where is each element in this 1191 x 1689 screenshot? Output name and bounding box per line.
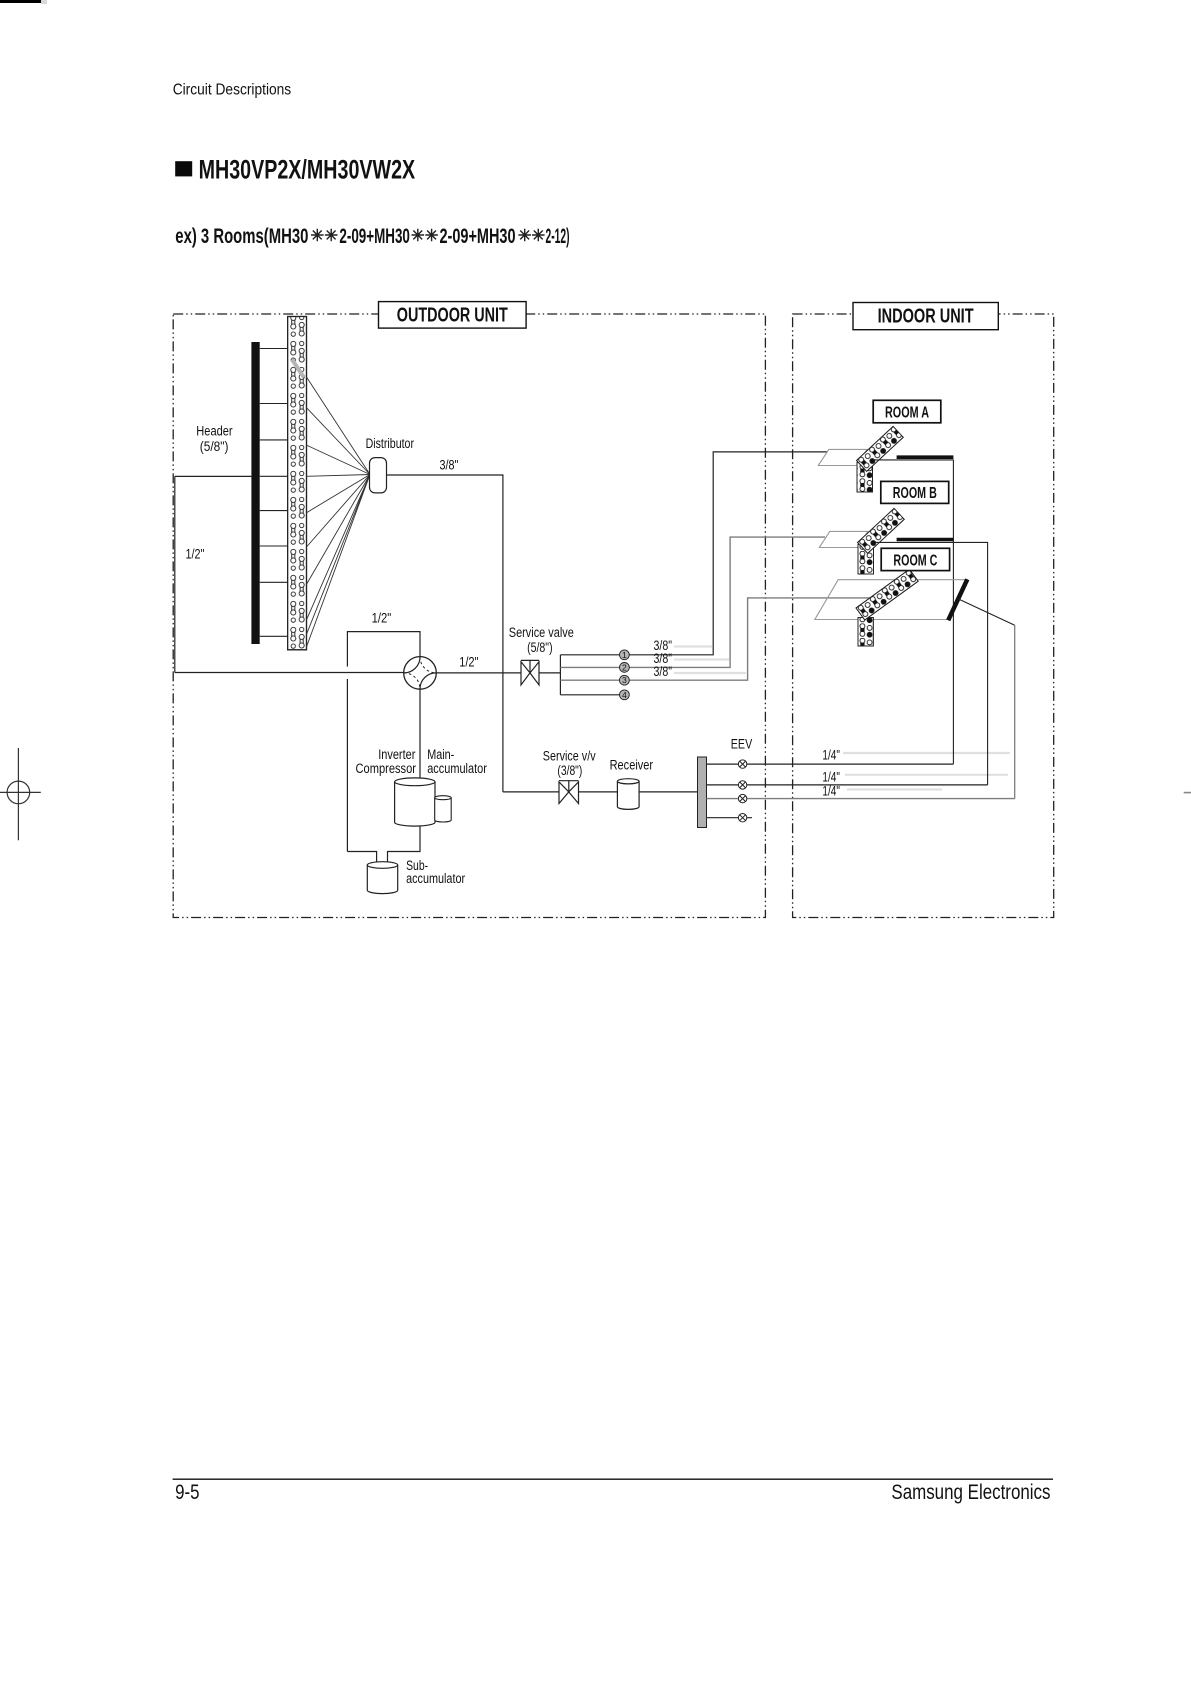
svg-text:accumulator: accumulator	[427, 761, 487, 776]
EEV port pipe 2	[707, 784, 988, 786]
pipe valve to service valve	[436, 672, 560, 674]
ROOM A label box	[873, 400, 941, 423]
svg-text:Service valve: Service valve	[509, 625, 574, 640]
branch pipe 4	[560, 694, 624, 696]
3/8 inch liquid pipe from distributor	[387, 475, 503, 792]
svg-text:EEV: EEV	[731, 736, 752, 751]
branch pipe 3	[560, 598, 881, 680]
branch number circle 4	[620, 690, 630, 700]
svg-text:1/2": 1/2"	[459, 655, 478, 670]
svg-text:Service v/v: Service v/v	[543, 749, 596, 764]
pipes into sub-accumulator	[347, 826, 420, 863]
svg-text:3: 3	[622, 675, 627, 685]
ROOM B label box	[881, 481, 949, 503]
page corner printing bar	[0, 0, 41, 3]
receiver vessel	[617, 781, 639, 809]
svg-text:2-12): 2-12)	[546, 225, 570, 248]
svg-text:ROOM A: ROOM A	[885, 404, 929, 421]
EEV valve symbol 2	[738, 781, 746, 789]
svg-text:ROOM C: ROOM C	[893, 552, 937, 569]
svg-text:Distributor: Distributor	[366, 436, 415, 451]
ROOM A evaporator vertical section	[857, 463, 873, 493]
registration mark left	[0, 748, 41, 840]
service v/v symbol	[559, 781, 579, 804]
svg-text:Samsung Electronics: Samsung Electronics	[891, 1481, 1050, 1504]
ROOM B housing thick base line	[897, 538, 954, 542]
branch junction manifold	[559, 655, 561, 695]
ROOM C evaporator vertical section	[858, 618, 873, 647]
section square bullet	[175, 161, 192, 176]
EEV valve symbol 3	[738, 794, 746, 802]
ROOM C indoor unit panel	[815, 580, 967, 620]
EEV valve symbol 1	[738, 760, 746, 768]
svg-text:ex) 3 Rooms(MH30: ex) 3 Rooms(MH30	[175, 225, 308, 248]
star glyphs pair 3	[518, 229, 544, 242]
svg-text:accumulator: accumulator	[406, 871, 465, 886]
EEV port pipe 4 stub	[707, 817, 753, 819]
ROOM C return pipe vertical	[1014, 625, 1016, 798]
EEV port pipe 3	[707, 798, 1015, 800]
svg-text:INDOOR UNIT: INDOOR UNIT	[878, 305, 974, 328]
svg-text:Main-: Main-	[427, 747, 454, 762]
EEV valve symbol 4	[738, 814, 746, 822]
svg-text:1/2": 1/2"	[372, 610, 392, 625]
svg-text:1/4": 1/4"	[822, 748, 840, 763]
svg-text:3/8": 3/8"	[654, 664, 673, 679]
branch number circle 2	[620, 662, 630, 672]
sub-accumulator vessel	[367, 865, 397, 894]
compressor small vessel	[435, 798, 452, 822]
outdoor heat exchanger coil	[288, 317, 307, 650]
left 1/2 inch riser pipe	[174, 476, 176, 672]
branch pipe 2	[560, 537, 825, 667]
header pipe	[175, 475, 252, 477]
ROOM B indoor unit panel	[819, 531, 868, 547]
main accumulator vessel	[395, 782, 435, 826]
svg-text:9-5: 9-5	[175, 1481, 199, 1504]
svg-text:1/2": 1/2"	[186, 547, 205, 562]
ROOM A return pipe	[874, 460, 953, 764]
ROOM C return pipe diagonal	[959, 599, 1015, 625]
svg-text:2: 2	[622, 662, 627, 672]
svg-text:Receiver: Receiver	[610, 758, 654, 773]
svg-text:Compressor: Compressor	[356, 761, 417, 776]
header manifold black bar	[251, 342, 259, 644]
EEV port pipe 1	[707, 763, 954, 765]
svg-text:Inverter: Inverter	[378, 747, 416, 762]
registration mark right edge	[1184, 792, 1191, 794]
OUTDOOR UNIT title box	[379, 302, 527, 329]
ROOM A housing thick base line	[897, 455, 954, 459]
compressor discharge pipe	[419, 689, 421, 778]
footer rule	[173, 1478, 1053, 1480]
star glyphs pair 2	[412, 229, 438, 242]
branch number circle 1	[620, 650, 630, 660]
svg-text:1: 1	[622, 650, 627, 660]
svg-text:3/8": 3/8"	[440, 458, 459, 473]
ROOM C housing thick slanted line	[948, 579, 967, 620]
svg-text:(5/8"): (5/8")	[200, 439, 229, 454]
ROOM B return pipe	[875, 542, 987, 785]
outdoor unit dash-dot border	[173, 314, 765, 918]
INDOOR UNIT title box	[853, 303, 998, 330]
header-to-coil stub pipes	[260, 349, 288, 637]
indoor unit dash-dot border	[793, 314, 1054, 918]
svg-text:ROOM B: ROOM B	[893, 485, 937, 502]
gray streak artifact on coil	[292, 360, 304, 378]
svg-text:2-09+MH30: 2-09+MH30	[440, 225, 516, 248]
svg-text:2-09+MH30: 2-09+MH30	[339, 225, 410, 248]
svg-text:OUTDOOR UNIT: OUTDOOR UNIT	[397, 303, 508, 326]
svg-text:4: 4	[622, 690, 627, 700]
ROOM A evaporator slanted section	[857, 426, 904, 471]
ROOM A indoor unit panel	[818, 449, 867, 465]
svg-text:1/4": 1/4"	[822, 770, 840, 785]
svg-text:Header: Header	[196, 423, 233, 438]
faint scan ghost lines	[674, 647, 1010, 790]
liquid pipe to receiver	[503, 791, 698, 793]
distributor fan capillary tubes	[307, 377, 371, 647]
hot gas loop pipe above 4-way valve	[347, 632, 420, 852]
distributor body	[370, 458, 387, 493]
branch number circle 3	[620, 675, 630, 685]
svg-text:(5/8"): (5/8")	[527, 640, 553, 655]
svg-text:Circuit Descriptions: Circuit Descriptions	[173, 82, 292, 99]
svg-text:(3/8"): (3/8")	[557, 763, 582, 778]
ROOM B evaporator slanted section	[858, 508, 905, 553]
service valve symbol	[521, 660, 539, 685]
branch pipe 1	[560, 452, 827, 655]
svg-text:MH30VP2X/MH30VW2X: MH30VP2X/MH30VW2X	[199, 155, 416, 185]
ROOM B evaporator vertical section	[858, 545, 874, 575]
4-way valve	[404, 657, 437, 690]
svg-text:1/4": 1/4"	[822, 784, 840, 799]
ROOM C label box	[881, 548, 949, 570]
ROOM C evaporator slanted section	[856, 569, 918, 620]
suction pipe to 4-way valve	[175, 672, 404, 674]
EEV manifold bar	[698, 757, 707, 828]
star glyphs pair 1	[311, 229, 338, 242]
